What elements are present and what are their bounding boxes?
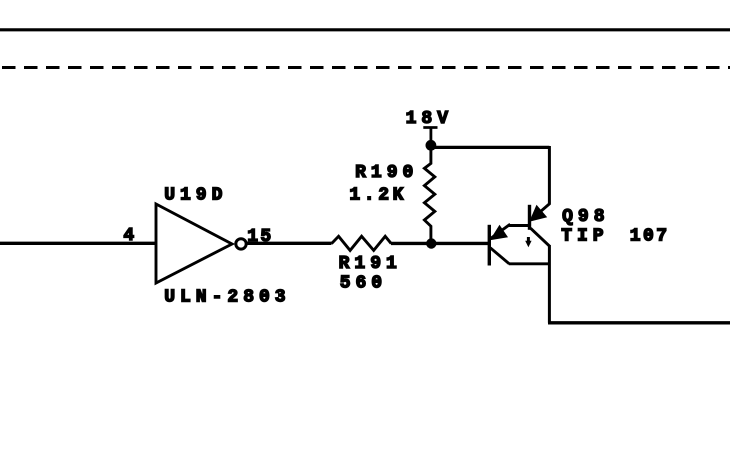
svg-text:560: 560 <box>340 274 387 294</box>
wire: output to right edge <box>548 321 730 324</box>
svg-text:R191: R191 <box>339 254 402 274</box>
wire: Q1 emitter to Q2 base <box>509 224 530 227</box>
wire: Q1 collector to output vertical (bottom rail) <box>509 262 550 265</box>
op-amp U1 inverter triangle U19D <box>156 204 232 283</box>
transistor Q1 collector lead <box>490 248 509 264</box>
svg-text:18V: 18V <box>406 109 453 129</box>
transistor Q2 base bar <box>528 205 531 230</box>
svg-text:4: 4 <box>123 226 139 246</box>
svg-text:TIP: TIP <box>561 227 608 247</box>
svg-text:ULN-2803: ULN-2803 <box>164 288 290 308</box>
svg-text:Q98: Q98 <box>562 207 609 227</box>
transistor Q2 (output device) emitter lead <box>531 204 550 220</box>
wire: 18V node to emitter corner (top rail) <box>431 146 550 149</box>
wire: bubble to R191 <box>246 242 332 245</box>
svg-text:R190: R190 <box>355 163 418 183</box>
transistor Q1 (driver) emitter lead <box>491 224 511 238</box>
wire: R191 to transistor base <box>391 242 489 245</box>
transistor Q2 emitter arrow <box>529 205 547 222</box>
dashed border line <box>2 66 730 69</box>
node junction dot at 18V <box>426 140 437 151</box>
resistor R190 vertical zigzag <box>424 145 434 243</box>
wire: input from left edge to inverter <box>0 242 156 245</box>
wire: output vertical down <box>548 245 551 323</box>
svg-text:1.2K: 1.2K <box>349 186 407 206</box>
transistor Q1 emitter arrow <box>490 225 508 241</box>
node junction dot at R190 bottom <box>426 238 436 248</box>
transistor Q2 collector lead <box>531 228 550 246</box>
transistor Q1 base bar <box>488 225 491 266</box>
svg-text:107: 107 <box>630 227 670 247</box>
supply terminal bar <box>423 126 437 129</box>
resistor R191 zigzag <box>332 236 392 250</box>
transistor Q2 base stub arrow below bar <box>527 237 530 243</box>
inverter output bubble <box>236 239 246 249</box>
wire: terminal to node <box>429 128 432 146</box>
svg-text:U19D: U19D <box>164 186 227 206</box>
solid border line <box>0 28 730 31</box>
wire: vertical down to Q98 emitter <box>548 146 551 205</box>
